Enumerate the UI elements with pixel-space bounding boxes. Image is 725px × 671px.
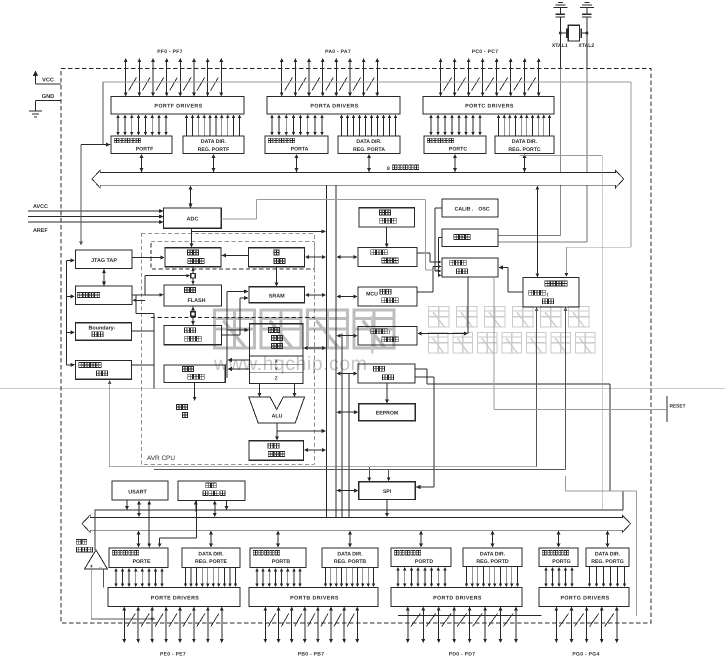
wire internal oscillator to watchdog timer	[385, 227, 389, 248]
program flash box	[164, 285, 222, 306]
pin wires PORTB with crossing	[263, 607, 359, 644]
wire bundle PORTA drivers to data direction register	[340, 115, 398, 136]
svg-text:RESET: RESET	[670, 404, 686, 410]
svg-text:AVCC: AVCC	[33, 204, 48, 210]
wire data bus to data direction register PORTB	[348, 530, 352, 547]
wire data bus to data direction register PORTD	[491, 530, 495, 547]
wire interrupt unit to EEPROM	[385, 383, 389, 404]
wire XTAL1 elbow to oscillator	[498, 235, 560, 237]
svg-text:PC0 - PC7: PC0 - PC7	[472, 49, 499, 55]
wire peripheral lane 1 to power monitor	[110, 307, 539, 467]
PORTD DRIVERS box	[391, 588, 522, 607]
wire ALU to status register	[275, 423, 326, 441]
svg-text:PORTC: PORTC	[449, 147, 467, 153]
power monitor controller box	[523, 278, 579, 308]
programming logic box	[76, 361, 132, 380]
wire SRAM to vertical bus	[305, 293, 326, 297]
wire peripheral lane 2 to power monitor	[154, 307, 568, 470]
wire data register PORTF to data bus	[140, 154, 144, 172]
pin label AREF	[33, 228, 48, 234]
wire XTAL2 elbow to oscillator	[498, 241, 587, 243]
data direction register PORTF box	[183, 136, 244, 154]
svg-text:PORTB DRIVERS: PORTB DRIVERS	[290, 595, 339, 601]
svg-text:REG. PORTB: REG. PORTB	[334, 559, 367, 565]
PORTB DRIVERS box	[249, 588, 378, 607]
wire bundle PORTF drivers to data direction register	[185, 115, 242, 136]
svg-text:PE0 - PE7: PE0 - PE7	[160, 652, 186, 658]
wire data bus to data register PORTE	[137, 530, 141, 547]
data register PORTB box	[250, 548, 306, 568]
pin label XTAL1	[552, 43, 568, 49]
svg-text:PG0 - PG4: PG0 - PG4	[572, 652, 599, 658]
wire data bus to data register PORTD	[419, 530, 423, 547]
wire interrupt unit long elbow right	[415, 369, 610, 491]
wire SPI to bus	[385, 500, 389, 518]
data direction register PORTD box	[463, 548, 522, 567]
wire gray ADC clock route to timing and control	[221, 200, 438, 271]
wire rail to general registers	[227, 328, 249, 332]
wire bundle PORTC drivers to data direction register	[497, 115, 552, 136]
wire bus to interrupt unit	[336, 372, 357, 376]
wire stack pointer to program counter	[221, 253, 248, 257]
wire JTAG TAP to on-chip debug	[102, 269, 106, 286]
MCU control register box	[358, 287, 417, 306]
svg-text:REG. PORTG: REG. PORTG	[591, 559, 624, 565]
AVR CPU dashed region	[141, 234, 314, 464]
svg-text:PD0 - PD7: PD0 - PD7	[449, 652, 476, 658]
wire bundle data register PORTB to drivers	[255, 568, 302, 587]
svg-text:DATA DIR.: DATA DIR.	[512, 139, 538, 145]
pin wires PORTA with crossing	[280, 58, 380, 97]
JTAG TAP box	[76, 250, 133, 268]
wire general registers X out	[227, 358, 249, 362]
wire stack pointer to SRAM	[275, 267, 279, 287]
wire flash to instruction register with latch square	[191, 306, 196, 325]
svg-text:DATA DIR.: DATA DIR.	[595, 551, 621, 557]
SPI box	[359, 482, 416, 500]
svg-text:PORTF DRIVERS: PORTF DRIVERS	[154, 104, 202, 110]
wire bundle data direction register PORTE to drivers	[184, 568, 238, 587]
pin label PC0 - PC7	[472, 49, 499, 55]
svg-text:PORTD: PORTD	[415, 559, 433, 565]
wire boundary-scan right elbow to scan rail	[132, 314, 154, 389]
svg-text:REG. PORTA: REG. PORTA	[353, 147, 385, 153]
oscillator box	[442, 229, 498, 247]
wire bundle PORTF drivers to data register	[116, 115, 168, 136]
general purpose registers box with X Y Z	[250, 324, 303, 384]
svg-text:CALIB .: CALIB .	[455, 207, 474, 213]
wire data direction register PORTA to data bus	[367, 154, 371, 172]
wire gray clock lane upper	[103, 81, 631, 83]
wire bundle data register PORTD to drivers	[396, 567, 447, 587]
wire program counter to flash with latch squares	[191, 267, 196, 285]
EEPROM box	[359, 404, 416, 421]
analog comparator label	[76, 540, 92, 553]
pin wires PORTG with crossing	[554, 607, 618, 644]
svg-text:XTAL2: XTAL2	[578, 43, 594, 49]
internal oscillator box	[359, 208, 415, 227]
wire bundle data direction register PORTD to drivers	[465, 567, 520, 587]
wire data bus to power monitor	[535, 186, 539, 278]
wire data bus to data register PORTG	[557, 530, 561, 547]
SRAM box	[249, 287, 305, 303]
svg-text:PORTG DRIVERS: PORTG DRIVERS	[560, 595, 609, 601]
boundary-scan box	[76, 323, 132, 340]
svg-text:XTAL1: XTAL1	[552, 43, 568, 49]
svg-text:PA0 - PA7: PA0 - PA7	[325, 49, 351, 55]
wire instruction register to SRAM	[221, 296, 248, 335]
status register box	[249, 441, 304, 460]
svg-text:PB0 - PB7: PB0 - PB7	[298, 652, 325, 658]
wire AVCC to ADC	[28, 209, 163, 213]
wire status register to vertical bus	[304, 448, 326, 452]
wire bundle data direction register PORTG to drivers	[588, 567, 627, 587]
wire general registers to vertical bus	[303, 346, 326, 350]
svg-text:PORTA DRIVERS: PORTA DRIVERS	[310, 104, 358, 110]
timer/counters box	[358, 327, 417, 346]
data direction register PORTB box	[322, 548, 378, 568]
pin wires PORTE with crossing	[122, 607, 224, 644]
wire data direction register PORTF to data bus	[212, 154, 216, 172]
svg-text:PORTA: PORTA	[291, 147, 309, 153]
wire general registers to ALU left	[258, 384, 262, 397]
data register PORTC box	[424, 136, 486, 154]
svg-text:PORTC DRIVERS: PORTC DRIVERS	[465, 104, 514, 110]
data register PORTF box	[111, 136, 172, 154]
pin wires PORTF with crossing	[124, 58, 224, 97]
on-chip debug box	[76, 286, 133, 304]
svg-text:REG. PORTF: REG. PORTF	[198, 147, 230, 153]
interrupt unit box	[358, 364, 415, 383]
pin wires PORTD with crossing	[406, 607, 518, 644]
vertical bus line 4	[348, 374, 350, 518]
svg-text:REG. PORTD: REG. PORTD	[476, 559, 509, 565]
stack pointer box	[248, 248, 304, 267]
ADC box	[164, 208, 222, 228]
wire bus to timer/counters	[336, 334, 357, 338]
wire MCU control register to timing and control	[417, 265, 442, 292]
crystal between XTAL1 and XTAL2	[559, 25, 589, 41]
wire stack pointer to vertical bus	[305, 255, 326, 259]
watermark thin line	[0, 387, 725, 389]
wire programming logic bottom feed to peripheral lane	[108, 380, 112, 467]
svg-text:Z: Z	[275, 376, 278, 381]
wire bundle PORTC drivers to data register	[429, 115, 482, 136]
svg-text:REG. PORTC: REG. PORTC	[508, 147, 541, 153]
svg-text:PORTF: PORTF	[136, 147, 154, 153]
bus label 8-bit data bus	[387, 165, 419, 172]
svg-text:PORTB: PORTB	[272, 559, 290, 565]
wire data register PORTC to data bus	[453, 154, 457, 172]
analog comparator triangle	[85, 550, 108, 570]
wire JTAG TAP to program counter	[132, 256, 164, 260]
wire branch into on-chip debug	[132, 299, 144, 303]
wire power monitor to timing and control	[498, 265, 523, 292]
data direction register PORTA box	[338, 136, 400, 154]
svg-text:PORTE DRIVERS: PORTE DRIVERS	[151, 595, 200, 601]
wire on-chip debug branch to latch	[145, 274, 191, 295]
wire gray power monitor down to port G	[566, 476, 637, 616]
wire rail feeding left column boxes	[67, 258, 76, 367]
pin label PA0 - PA7	[325, 49, 351, 55]
instruction decoder box	[164, 365, 225, 383]
data direction register PORTE box	[182, 548, 240, 568]
wire CALIB OSC feed to timing and control	[435, 208, 442, 273]
wire data direction register PORTC to data bus	[523, 154, 527, 172]
wire bus to watchdog timer	[336, 255, 357, 259]
watermark hqchip	[213, 307, 595, 376]
wire gray right rail to power monitor	[565, 82, 632, 277]
ground and capacitor at XTAL1	[553, 2, 567, 235]
wire RESET to timing and control	[494, 277, 667, 409]
PORTC DRIVERS box	[423, 97, 554, 115]
wire bus to SPI	[336, 489, 358, 493]
wire feed to data register PORTF	[81, 143, 111, 147]
wire port D to port G link	[398, 615, 541, 617]
wire comparator input from PE2 pin	[91, 569, 155, 620]
PORTE DRIVERS box	[108, 588, 240, 607]
wire AVCC2 to ADC	[28, 215, 163, 219]
wire TWI to bus	[194, 501, 229, 518]
wire comparator output up to lane	[94, 510, 96, 550]
wire SPI top feeds from lanes	[367, 467, 390, 482]
svg-text:DATA DIR.: DATA DIR.	[480, 551, 506, 557]
wire bus to MCU control register	[336, 295, 357, 299]
svg-text:Y: Y	[275, 366, 278, 371]
PORTF DRIVERS box	[111, 97, 244, 115]
watchdog timer box	[358, 248, 417, 267]
svg-text:8: 8	[387, 166, 390, 172]
svg-text:ADC: ADC	[187, 217, 199, 223]
CALIB. OSC box	[442, 199, 498, 217]
svg-text:MCU: MCU	[366, 291, 378, 297]
wire bus to EEPROM	[336, 410, 358, 414]
wire watchdog to timing and control	[417, 253, 442, 264]
svg-text:ALU: ALU	[272, 414, 283, 420]
PORTA DRIVERS box	[267, 97, 400, 115]
ALU trapezoid	[249, 397, 305, 423]
wire rail to SRAM	[227, 289, 249, 378]
svg-text:AREF: AREF	[33, 228, 48, 234]
data register PORTG box	[539, 548, 578, 567]
data register PORTE box	[109, 548, 168, 568]
wire bundle PORTA drivers to data register	[270, 115, 324, 136]
wire data bus to data register PORTB	[276, 530, 280, 547]
pin label XTAL2	[578, 43, 594, 49]
pin label AVCC	[33, 204, 48, 210]
wire AREF to ADC	[28, 220, 163, 224]
pin label PB0 - PB7	[298, 652, 325, 658]
pin label PE0 - PE7	[160, 652, 186, 658]
wire bundle data register PORTG to drivers	[544, 567, 574, 587]
wire USART to bus	[125, 500, 151, 548]
8-bit data bus (top)	[92, 170, 624, 188]
svg-text:PORTG: PORTG	[552, 559, 570, 565]
svg-text:DATA DIR.: DATA DIR.	[198, 551, 224, 557]
8-bit data bus (bottom)	[82, 515, 631, 532]
wire clock lane down to port F register and JTAG TAP	[79, 82, 103, 246]
USART box	[112, 481, 168, 500]
power pin VCC	[33, 71, 61, 85]
wire timing and control to timer/counters	[417, 277, 468, 336]
wire gray rail to bottom lane	[520, 156, 603, 510]
svg-text:PORTE: PORTE	[133, 559, 151, 565]
svg-text:DATA DIR.: DATA DIR.	[201, 139, 227, 145]
vertical bus line 2	[335, 185, 337, 517]
svg-text:PORTD DRIVERS: PORTD DRIVERS	[433, 595, 482, 601]
data direction register PORTG box	[586, 548, 629, 567]
ground and capacitor at XTAL2	[580, 2, 594, 242]
wire data bus to data direction register PORTE	[209, 530, 213, 547]
svg-text:OSC: OSC	[478, 207, 489, 213]
wire general registers to ALU right	[293, 384, 297, 397]
chip boundary dashed border	[61, 69, 651, 624]
pin label PG0 - PG4	[572, 652, 599, 658]
svg-text:EEPROM: EEPROM	[376, 411, 398, 417]
vertical bus line 1	[326, 185, 328, 517]
svg-text:Boundary-: Boundary-	[89, 326, 116, 332]
svg-text:REG. PORTE: REG. PORTE	[195, 559, 228, 565]
PORTG DRIVERS box	[539, 588, 629, 607]
wire bundle data direction register PORTB to drivers	[324, 568, 376, 587]
wire general registers Y out	[227, 367, 249, 371]
control lines label and arrow	[177, 383, 197, 418]
wire data bus to data direction register PORTG	[606, 530, 610, 547]
svg-text:FLASH: FLASH	[188, 298, 206, 304]
wire data register PORTA to data bus	[295, 154, 299, 172]
svg-text:USART: USART	[128, 490, 147, 496]
data register PORTA box	[265, 136, 328, 154]
svg-text:SPI: SPI	[383, 489, 392, 495]
wire oscillator feed to timing and control	[438, 238, 442, 278]
two-wire serial interface box	[178, 481, 245, 501]
pin RESET	[667, 396, 686, 422]
program counter box	[165, 248, 221, 267]
svg-text:AVR CPU: AVR CPU	[147, 455, 175, 462]
wire TWI output to data register PORTE	[158, 501, 197, 548]
wire comparator input to PORTE drivers	[103, 569, 105, 588]
data direction register PORTC box	[495, 136, 554, 154]
pin wires PORTC with crossing	[439, 58, 541, 97]
data register PORTD box	[391, 548, 451, 567]
wire ADC to data bus	[189, 186, 193, 208]
svg-text:VCC: VCC	[42, 78, 54, 84]
wire ADC to program counter and vertical bus	[190, 228, 327, 247]
svg-text:SRAM: SRAM	[269, 293, 285, 299]
svg-text:PF0 - PF7: PF0 - PF7	[157, 49, 182, 55]
wire secondary bus lane above bottom bus	[95, 491, 623, 510]
wire programming logic right elbow	[132, 364, 154, 366]
wire on-chip debug to program flash	[132, 293, 164, 297]
wire on-chip debug elbow down to scan rail	[136, 295, 154, 314]
ground GND	[29, 94, 61, 117]
vertical bus line 3	[341, 334, 343, 518]
pin label PD0 - PD7	[449, 652, 476, 658]
wire interrupt unit elbow to SPI	[415, 377, 434, 489]
instruction register box	[164, 325, 222, 344]
svg-text:DATA DIR.: DATA DIR.	[337, 551, 363, 557]
svg-text:JTAG TAP: JTAG TAP	[91, 258, 117, 264]
svg-text:DATA DIR.: DATA DIR.	[356, 139, 382, 145]
wire bundle data register PORTE to drivers	[114, 568, 164, 587]
timing and control box	[442, 258, 498, 277]
pin label PF0 - PF7	[157, 49, 182, 55]
svg-text:GND: GND	[42, 94, 54, 100]
